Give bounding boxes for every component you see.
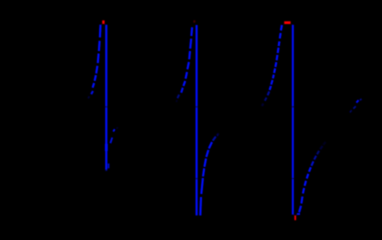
spike 2 downstroke (vertical blue line) xyxy=(196,25,198,215)
spike 1 rising phase (dashed blue) xyxy=(88,25,100,99)
spike 2 peak marker (dim red) xyxy=(193,20,195,22)
end-of-trace dots (pre spike 4) xyxy=(350,99,362,112)
spike 2 rising phase (dashed blue) xyxy=(176,27,192,102)
spike 1 reset hook xyxy=(108,164,110,169)
spike 1 recovery (dashed blue) xyxy=(110,127,117,143)
spike 3 peak marker (red bar) xyxy=(284,21,290,24)
spike 3 rising phase (dashed blue) xyxy=(262,25,282,106)
spike 1 downstroke (vertical blue line) xyxy=(105,25,107,171)
spike 2 recovery (dashed blue) xyxy=(200,134,218,216)
spike 3 downstroke (vertical blue line) xyxy=(292,25,294,215)
faint interspike dot xyxy=(217,135,219,137)
spike 3 reset marker (red tick) xyxy=(294,215,296,220)
spike 3 recovery (dashed blue, fading) xyxy=(299,142,326,212)
spike 3 recovery foot (horizontal dash) xyxy=(297,213,300,215)
spike 1 peak marker (red) xyxy=(102,20,104,24)
